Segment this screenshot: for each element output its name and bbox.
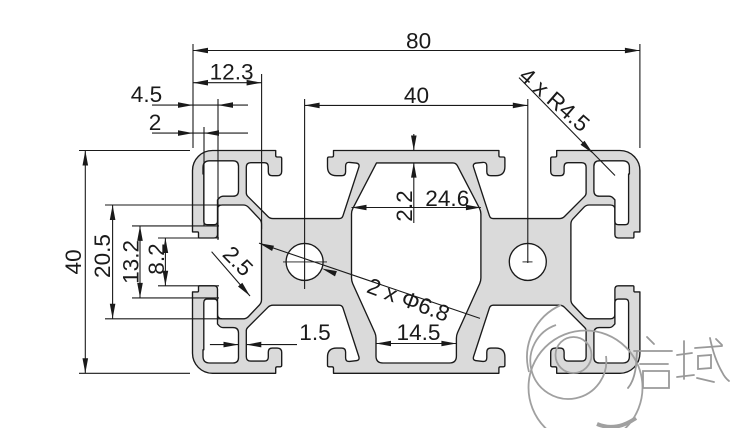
svg-text:13.2: 13.2 [119, 240, 144, 284]
svg-text:14.5: 14.5 [397, 320, 441, 345]
svg-text:80: 80 [406, 29, 431, 54]
svg-text:2: 2 [149, 110, 162, 135]
svg-text:24.6: 24.6 [425, 186, 469, 211]
svg-text:40: 40 [61, 249, 86, 274]
svg-text:12.3: 12.3 [210, 59, 254, 84]
svg-text:4.5: 4.5 [131, 82, 162, 107]
svg-text:1.5: 1.5 [299, 320, 330, 345]
svg-text:20.5: 20.5 [90, 234, 115, 278]
svg-text:8.2: 8.2 [144, 243, 169, 274]
svg-text:2.2: 2.2 [392, 190, 417, 221]
svg-text:40: 40 [404, 83, 429, 108]
